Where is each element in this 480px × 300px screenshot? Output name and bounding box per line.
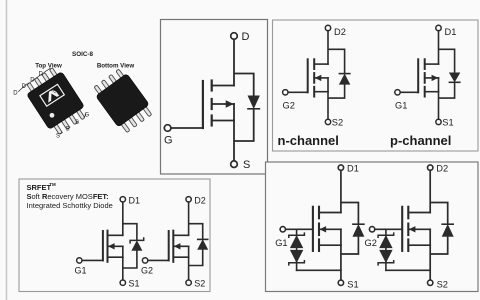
MOSFET Q2 (SRFET pair): source wire	[188, 257, 190, 280]
MOSFET Q0 (top box): gate line	[202, 81, 204, 128]
box: product summary MOSFET symbol	[161, 20, 268, 175]
MOSFET Q1 p-channel: gate line	[417, 59, 419, 92]
MOSFET Q0 (top box): channel segments	[211, 81, 213, 126]
svg-text:S1: S1	[129, 279, 140, 289]
MOSFET Q2 (SRFET pair): body stub with arrow	[173, 244, 188, 249]
MOSFET Q1 p-channel: gate wire	[400, 91, 418, 93]
MOSFET Q2 (ESD protected): source terminal S2	[428, 279, 448, 289]
MOSFET Q1 p-channel: body diode (cathode down)	[449, 73, 459, 83]
pin labels D (drain pins 1-4) with leader lines	[13, 69, 50, 97]
MOSFET Q1 p-channel: drain terminal D1	[436, 25, 457, 37]
MOSFET Q0 (top box): drain stub	[212, 85, 234, 87]
MOSFET Q1 p-channel: source wire	[438, 92, 440, 120]
IC package U1 bottom view (SOIC-8)	[91, 67, 155, 135]
label Soft Recovery MOSFET:	[27, 192, 109, 201]
table rule at far left	[6, 0, 8, 300]
svg-text:D1: D1	[347, 164, 359, 174]
MOSFET Q1 (ESD protected): source stub	[319, 244, 341, 246]
svg-text:G2: G2	[365, 238, 377, 248]
MOSFET Q1 SRFET: drain wire	[122, 202, 124, 235]
MOSFET Q1 (ESD protected): body stub with arrow	[319, 227, 341, 232]
MOSFET Q1 (ESD protected): gate terminal G1	[275, 227, 287, 249]
svg-text:S: S	[66, 127, 70, 133]
MOSFET Q1 p-channel: drain stub	[425, 63, 439, 65]
MOSFET Q1 SRFET: source wire	[122, 257, 124, 280]
MOSFET Q2 (ESD protected): gate terminal G2	[365, 227, 377, 249]
MOSFET Q2 n-channel: source stub	[314, 91, 328, 93]
svg-text:G1: G1	[395, 100, 407, 110]
MOSFET Q2 (ESD protected): source wire	[429, 245, 431, 280]
MOSFET Q1 SRFET: drain stub	[108, 234, 123, 236]
label SRFET(TM)	[27, 182, 57, 192]
MOSFET Q2 (SRFET pair): source stub	[173, 256, 188, 258]
MOSFET Q1 (ESD protected): body-source junction wire	[340, 229, 342, 245]
svg-text:SRFET: SRFET	[27, 183, 52, 192]
ESD stack 2: source return wire	[386, 269, 430, 271]
MOSFET Q2 n-channel: channel segments	[313, 59, 315, 96]
pin labels S,S,S,G (source/gate pins) with leader lines	[56, 113, 90, 140]
MOSFET Q2 n-channel: drain terminal D2	[325, 25, 346, 37]
svg-text:D1: D1	[445, 27, 457, 37]
ESD stack 1: upper ESD zener diode (cathode up)	[289, 232, 305, 247]
MOSFET Q1 (ESD protected): gate wire	[286, 228, 313, 230]
MOSFET Q1 SRFET: channel segments	[107, 231, 109, 262]
MOSFET Q0 (top box): source terminal S	[231, 159, 251, 171]
MOSFET Q2 (ESD protected): body diode branch wires	[430, 203, 448, 255]
MOSFET Q2 (SRFET pair): gate line	[168, 231, 170, 260]
MOSFET Q2 (SRFET pair): gate wire	[148, 259, 169, 261]
MOSFET Q2 (ESD protected): body-source junction wire	[429, 229, 431, 245]
svg-text:SOIC-8: SOIC-8	[72, 51, 93, 58]
MOSFET Q1 (ESD protected): gate line	[312, 207, 314, 251]
MOSFET Q1 SRFET: source terminal S1	[120, 279, 139, 289]
MOSFET Q1 p-channel: body stub with arrow	[425, 75, 439, 80]
MOSFET Q1 (ESD protected): body diode branch wires	[341, 203, 359, 255]
MOSFET Q1 p-channel: source stub	[425, 91, 439, 93]
MOSFET Q1 SRFET: gate wire	[82, 259, 103, 261]
MOSFET Q2 (ESD protected): gate wire	[375, 228, 402, 230]
ESD stack 1: source return wire	[297, 269, 341, 271]
MOSFET Q2 n-channel: drain stub	[314, 63, 328, 65]
MOSFET Q0 (top box): body stub with arrow	[212, 101, 234, 108]
MOSFET Q2 n-channel: body-source junction wire	[327, 78, 329, 92]
MOSFET Q2 (SRFET pair): gate terminal G2	[141, 258, 153, 276]
MOSFET Q0 (top box): drain terminal D	[231, 31, 250, 43]
MOSFET Q1 p-channel: body-source junction wire	[438, 78, 440, 92]
MOSFET Q2 n-channel: gate terminal G2	[283, 90, 295, 111]
MOSFET Q2 n-channel: drain wire	[327, 31, 329, 64]
svg-text:Top View: Top View	[35, 63, 62, 70]
MOSFET Q2 (SRFET pair): body diode (cathode up)	[198, 239, 208, 249]
svg-text:D2: D2	[194, 195, 206, 205]
MOSFET Q0 (top box): body diode (cathode down)	[248, 96, 259, 109]
svg-text:D2: D2	[436, 164, 448, 174]
MOSFET Q1 SRFET: body-source junction wire	[122, 246, 124, 257]
MOSFET Q1 (ESD protected): source terminal S1	[338, 279, 358, 289]
MOSFET Q1 SRFET: gate terminal G1	[75, 258, 87, 276]
svg-text:G1: G1	[75, 266, 87, 276]
svg-text:D2: D2	[334, 27, 346, 37]
MOSFET Q2 n-channel: source wire	[327, 92, 329, 120]
MOSFET Q0 (top box): source stub	[212, 120, 234, 122]
box: dual MOSFET with ESD protection diodes	[266, 162, 479, 292]
svg-text:S2: S2	[437, 279, 448, 289]
MOSFET Q1 SRFET: source stub	[108, 256, 123, 258]
MOSFET Q1 p-channel: gate terminal G1	[395, 90, 408, 111]
svg-text:D: D	[242, 31, 250, 43]
svg-text:n-channel: n-channel	[278, 133, 339, 148]
MOSFET Q1 (ESD protected): source wire	[340, 245, 342, 280]
svg-text:Integrated Schottky Diode: Integrated Schottky Diode	[27, 201, 113, 210]
MOSFET Q1 p-channel: drain wire	[438, 31, 440, 64]
svg-text:G2: G2	[141, 266, 153, 276]
MOSFET Q1 (ESD protected): drain stub	[319, 212, 341, 214]
svg-text:p-channel: p-channel	[390, 133, 451, 148]
MOSFET Q2 (SRFET pair): drain wire	[188, 202, 190, 235]
svg-text:S2: S2	[332, 118, 343, 128]
MOSFET Q1 p-channel: channel segments	[424, 59, 426, 96]
MOSFET Q0 (top box): source wire	[233, 121, 235, 161]
svg-text:D: D	[13, 91, 18, 97]
svg-text:G: G	[164, 135, 173, 147]
svg-text:S1: S1	[347, 279, 358, 289]
svg-text:TM: TM	[49, 182, 56, 187]
MOSFET Q2 (SRFET pair): channel segments	[172, 231, 174, 262]
MOSFET Q2 (ESD protected): drain stub	[408, 212, 430, 214]
IC package U1 top view (SOIC-8)	[22, 65, 90, 138]
ESD stack 2: upper ESD zener diode (cathode up)	[378, 232, 394, 247]
MOSFET Q2 n-channel: body diode branch wires	[328, 49, 345, 98]
MOSFET Q1 SRFET: gate line	[102, 231, 104, 260]
MOSFET Q2 (ESD protected): body diode (cathode up)	[442, 224, 453, 236]
svg-text:S1: S1	[442, 118, 453, 128]
MOSFET Q2 n-channel: gate wire	[288, 91, 308, 93]
MOSFET Q2 (ESD protected): channel segments	[407, 207, 409, 251]
svg-text:G2: G2	[283, 100, 295, 110]
MOSFET Q0 (top box): drain wire	[233, 39, 235, 85]
ESD stack 2: connecting wire	[385, 229, 387, 270]
svg-text:S: S	[56, 134, 60, 140]
svg-text:S2: S2	[194, 279, 205, 289]
MOSFET Q1 (ESD protected): body diode (cathode up)	[353, 224, 364, 236]
MOSFET Q2 (SRFET pair): body diode branch wires	[189, 224, 203, 266]
svg-text:S: S	[75, 120, 79, 126]
MOSFET Q2 (SRFET pair): drain terminal D2	[186, 195, 206, 205]
MOSFET Q0 (top box): gate wire	[171, 127, 203, 129]
MOSFET Q1 SRFET: drain terminal D1	[120, 195, 140, 205]
MOSFET Q1 p-channel: source terminal S1	[436, 118, 454, 128]
MOSFET Q2 (ESD protected): gate line	[401, 207, 403, 251]
MOSFET Q1 SRFET: body diode branch wires	[123, 224, 137, 268]
MOSFET Q0 (top box): body diode branch wires	[234, 74, 254, 142]
svg-text:Bottom View: Bottom View	[97, 63, 135, 70]
svg-text:D1: D1	[129, 195, 141, 205]
MOSFET Q2 (ESD protected): drain terminal D2	[428, 164, 449, 174]
MOSFET Q0 (top box): body-source junction wire	[233, 104, 235, 121]
MOSFET Q2 (ESD protected): body stub with arrow	[408, 227, 430, 232]
ESD stack 1: lower ESD zener diode (cathode down)	[289, 250, 305, 265]
MOSFET Q2 n-channel: body diode (cathode up)	[339, 74, 349, 85]
MOSFET Q2 (SRFET pair): drain stub	[173, 234, 188, 236]
ESD stack 1: connecting wire	[296, 229, 298, 270]
MOSFET Q2 (SRFET pair): source terminal S2	[186, 279, 205, 289]
MOSFET Q1 (ESD protected): drain wire	[340, 170, 342, 212]
MOSFET Q1 SRFET: body stub with arrow	[108, 244, 123, 249]
box: SRFET complementary pair with Schottky	[19, 179, 210, 292]
MOSFET Q2 (SRFET pair): body-source junction wire	[188, 246, 190, 257]
svg-text:G1: G1	[275, 238, 287, 248]
MOSFET Q2 n-channel: gate line	[307, 59, 309, 92]
MOSFET Q1 p-channel: body diode branch wires	[439, 49, 455, 98]
MOSFET Q2 (ESD protected): drain wire	[429, 170, 431, 212]
MOSFET Q1 SRFET: integrated Schottky diode	[130, 237, 144, 250]
MOSFET Q1 (ESD protected): channel segments	[318, 207, 320, 251]
MOSFET Q1 (ESD protected): drain terminal D1	[338, 164, 359, 174]
svg-text:S: S	[243, 159, 250, 171]
ESD stack 2: lower ESD zener diode (cathode down)	[378, 250, 394, 265]
box: n-channel and p-channel MOSFET symbols	[273, 20, 479, 151]
MOSFET Q2 n-channel: body stub with arrow	[314, 75, 328, 80]
MOSFET Q0 (top box): gate terminal G	[164, 125, 173, 147]
MOSFET Q2 n-channel: source terminal S2	[325, 118, 343, 128]
svg-text:Soft Recovery MOSFET:: Soft Recovery MOSFET:	[27, 192, 109, 201]
MOSFET Q2 (ESD protected): source stub	[408, 244, 430, 246]
